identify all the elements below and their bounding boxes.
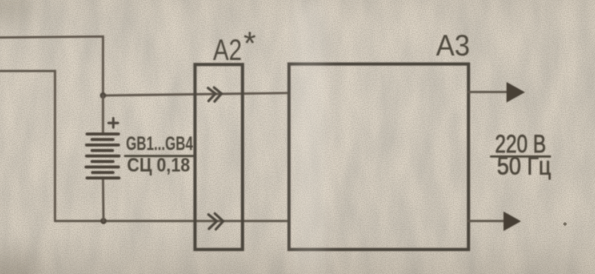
battery GB1...GB4 plates [86,134,119,178]
chevron bottom (A2 input) [208,214,223,230]
chevron top (A2 input) [208,88,222,102]
wire battery top lead [102,96,104,135]
node junction top [100,92,106,98]
svg-text:A3: A3 [436,30,470,63]
battery plus sign [109,118,119,127]
wire top-left input [0,37,103,96]
wire battery bottom lead [102,178,105,221]
wire top bus junction to A3 [103,93,289,96]
wire second input [0,71,55,221]
svg-text:50 Гц: 50 Гц [497,153,551,181]
svg-text:GB1...GB4: GB1...GB4 [126,134,193,155]
wire bottom bus [55,220,289,222]
label fraction line 220V [491,155,550,157]
arrow output top [507,82,526,103]
label fraction line GB [125,155,194,157]
svg-text:A2: A2 [213,34,242,67]
svg-text:СЦ 0,18: СЦ 0,18 [127,156,190,177]
speck near bottom arrow [563,222,566,225]
wire output bottom [469,220,506,222]
svg-text:*: * [244,26,256,62]
wire output top [469,91,509,93]
node junction bottom [100,218,106,224]
block A3 rectangle [289,64,469,250]
block A2 rectangle [195,65,243,250]
arrow output bottom [504,212,522,232]
